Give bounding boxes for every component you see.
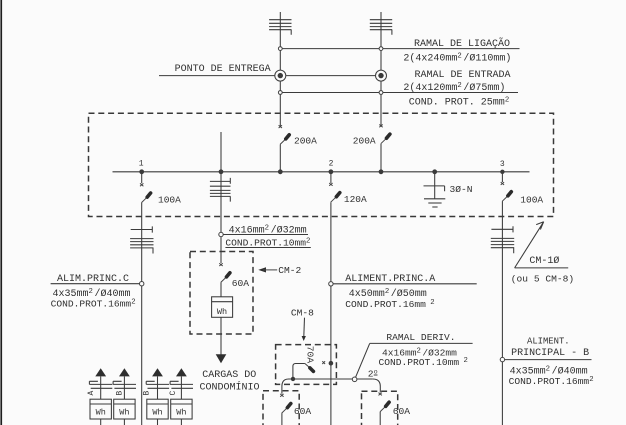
svg-text:(ou 5 CM-8): (ou 5 CM-8) [511, 274, 574, 285]
svg-text:1: 1 [139, 160, 144, 169]
svg-text:RAMAL DERIV.: RAMAL DERIV. [386, 332, 455, 343]
svg-text:COND.PROT.10mm 2: COND.PROT.10mm 2 [379, 357, 468, 368]
svg-text:ALIMENT.: ALIMENT. [527, 337, 570, 347]
svg-text:70A: 70A [305, 346, 316, 364]
svg-text:PRINCIPAL - B: PRINCIPAL - B [511, 348, 589, 359]
svg-text:CM-2: CM-2 [278, 265, 301, 276]
svg-text:200A: 200A [353, 136, 376, 147]
svg-text:B: B [115, 391, 124, 396]
svg-text:3: 3 [500, 160, 505, 169]
svg-text:CM-8: CM-8 [291, 308, 314, 319]
svg-text:ALIM.PRINC.C: ALIM.PRINC.C [57, 274, 129, 285]
svg-text:120A: 120A [344, 194, 367, 205]
svg-text:100A: 100A [520, 194, 543, 205]
svg-text:2(4x240mm2/Ø110mm): 2(4x240mm2/Ø110mm) [403, 52, 511, 64]
svg-text:COND.PROT.16mm2: COND.PROT.16mm2 [509, 376, 594, 387]
svg-text:RAMAL DE ENTRADA: RAMAL DE ENTRADA [415, 70, 511, 81]
svg-text:2: 2 [329, 160, 334, 169]
svg-text:2(4x120mm2/Ø75mm): 2(4x120mm2/Ø75mm) [403, 82, 505, 94]
svg-text:CONDOMÍNIO: CONDOMÍNIO [200, 379, 260, 393]
svg-text:60A: 60A [294, 406, 312, 417]
svg-text:60A: 60A [232, 278, 250, 289]
svg-text:C: C [169, 391, 178, 396]
svg-text:COND.PROT.16mm2: COND.PROT.16mm2 [51, 298, 136, 309]
svg-text:Wh: Wh [217, 307, 227, 317]
svg-text:COND.PROT.10mm2: COND.PROT.10mm2 [225, 237, 310, 248]
svg-text:CARGAS DO: CARGAS DO [202, 370, 256, 381]
svg-text:B: B [143, 391, 152, 396]
svg-text:3Ø-N: 3Ø-N [450, 184, 473, 195]
svg-text:COND.PROT.16mm 2: COND.PROT.16mm 2 [345, 299, 434, 310]
svg-text:100A: 100A [158, 194, 181, 205]
svg-text:COND. PROT. 25mm2: COND. PROT. 25mm2 [409, 97, 509, 109]
svg-text:ALIMENT.PRINC.A: ALIMENT.PRINC.A [345, 274, 435, 285]
svg-text:200A: 200A [294, 136, 317, 147]
svg-text:CM-1Ø: CM-1Ø [529, 255, 559, 267]
svg-text:PONTO DE ENTREGA: PONTO DE ENTREGA [175, 64, 271, 75]
svg-text:RAMAL DE LIGAÇÃO: RAMAL DE LIGAÇÃO [414, 37, 510, 50]
svg-text:A: A [87, 391, 96, 396]
svg-text:60A: 60A [393, 406, 411, 417]
